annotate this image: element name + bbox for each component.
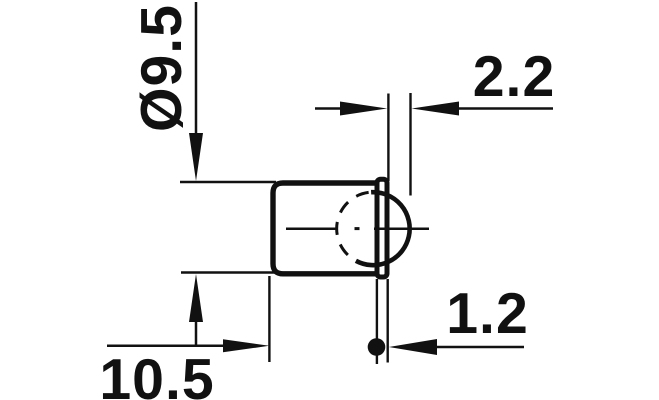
flange (collar) xyxy=(377,179,387,277)
hidden ball dashed arc xyxy=(337,192,371,261)
arrowhead down (Ø9.5) xyxy=(189,133,203,181)
reference dot (1.2) xyxy=(368,338,386,356)
extension line 2.2 left (flange right face) xyxy=(387,94,389,182)
body outline (cylindrical housing) xyxy=(273,183,377,274)
arrowhead up (Ø9.5) xyxy=(189,274,203,322)
arrowhead right (2.2) xyxy=(340,102,387,116)
arrowhead right (10.5) xyxy=(223,339,269,352)
svg-text:1.2: 1.2 xyxy=(446,282,529,346)
center mark dash xyxy=(355,227,360,230)
dimension line 2.2 right tail xyxy=(459,107,553,110)
dimension line 1.2 tail xyxy=(437,346,524,349)
extension line bottom (diameter lower) xyxy=(181,271,276,273)
svg-text:Ø9.5: Ø9.5 xyxy=(130,4,194,132)
dimension line 10.5 horizontal xyxy=(107,345,226,348)
centerline left segment xyxy=(286,227,338,230)
extension line top (diameter upper) xyxy=(180,181,276,183)
extension line right of 10.5 (body left edge extended) xyxy=(268,276,270,362)
svg-text:10.5: 10.5 xyxy=(99,348,214,400)
svg-text:2.2: 2.2 xyxy=(473,45,556,109)
dimension line Ø9.5 upper vertical xyxy=(195,2,198,136)
extension line 1.2 right (flange right face) xyxy=(387,279,389,363)
extension line 1.2 left (flange left face) xyxy=(376,279,378,364)
arrowhead left (1.2) xyxy=(389,339,437,355)
centerline right segment xyxy=(374,227,429,230)
dimension line Ø9.5 lower vertical tail xyxy=(195,322,198,346)
arrowhead left (2.2) xyxy=(412,102,459,116)
dimension line 2.2 left tail xyxy=(315,107,342,110)
ball dome arc xyxy=(356,192,410,265)
extension line 2.2 right (ball apex) xyxy=(409,93,411,196)
